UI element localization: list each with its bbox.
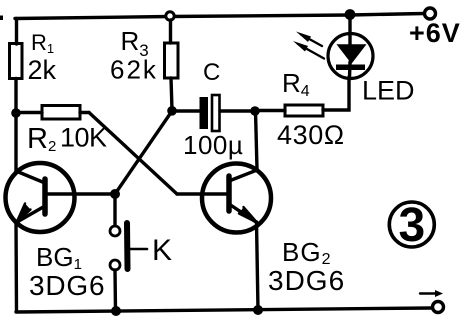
wire BG2 emitter down to rail [257,222,259,310]
switch K bottom contact [110,260,120,270]
wire BG2 collector vertical [256,111,258,169]
svg-text:100µ: 100µ [183,130,243,160]
node K bottom rail junction [111,306,121,316]
svg-text:BG1: BG1 [36,242,82,273]
switch K blade [124,223,131,269]
transistor Q2 BG2 [202,164,271,233]
resistor R4 body [285,105,323,116]
svg-text:2k: 2k [28,55,57,85]
node LED anode on rail [345,9,356,20]
node C left junction [167,106,177,116]
wire R3 top [169,20,172,43]
scan speck left edge [0,16,3,21]
wire BG1 emitter down to bottom rail [14,222,18,311]
LED triangle [338,45,365,63]
svg-text:430Ω: 430Ω [277,120,345,150]
figure number circled 3 [389,199,434,252]
wire left vertical from rail to R1 [15,19,18,45]
terminal ring R3 top on rail [166,12,174,20]
wire K bottom to rail [113,270,117,311]
svg-text:K: K [152,234,172,267]
switch K actuator tick [130,248,147,251]
terminal bottom (open circle) [433,302,444,313]
LED light arrow 2 [293,41,324,59]
switch K top contact [110,226,120,236]
svg-text:+6V: +6V [409,18,461,48]
svg-text:3DG6: 3DG6 [268,265,345,296]
wire node to capacitor [172,109,199,112]
LED circle [328,34,373,79]
svg-text:BG2: BG2 [282,237,331,268]
polarity arrow above bottom terminal [420,290,443,297]
wire capacitor to BG2 collector node [220,109,255,112]
wire R2 right stub [80,111,89,114]
svg-text:C: C [203,59,220,86]
node BG2 emitter rail junction [253,305,263,315]
capacitor C positive plate [200,97,209,129]
svg-text:R1: R1 [31,30,54,56]
svg-text:R4: R4 [282,68,310,100]
svg-text:3DG6: 3DG6 [29,270,105,301]
node BG1 base junction [110,189,120,199]
wire R3 bottom to node [171,78,172,110]
wire node down to BG1 collector [14,113,17,170]
svg-text:R2: R2 [27,123,56,155]
svg-text:62k: 62k [110,55,158,85]
wire R4 right to LED cathode drop [323,77,349,110]
resistor R2 body [42,106,80,120]
wire LED cathode inside [348,62,352,78]
capacitor C negative plate [212,95,220,131]
wire node to R4 [255,109,285,112]
transistor Q1 BG1 [6,163,116,232]
LED cathode bar [336,65,365,71]
svg-text:3: 3 [398,199,425,252]
switch K wire from base node [113,194,116,226]
node BG1 collector junction [11,108,21,118]
node BG2 collector junction [250,106,260,116]
wire diagonal BG1 base node up to C node [115,111,172,194]
resistor R3 body [165,43,179,78]
wire into BG2 base [177,192,201,195]
wire bottom rail [16,308,432,312]
wire diagonal R2 to BG2 base [89,113,177,195]
terminal +6V (open circle) [425,8,436,19]
wire node to R2 [16,111,42,114]
wire top supply rail [15,14,424,19]
wire R1 bottom to node [14,79,17,114]
wire LED anode [348,15,351,46]
resistor R1 body [10,44,23,79]
LED light arrow 1 [296,32,322,47]
svg-text:10K: 10K [60,123,107,153]
svg-text:LED: LED [362,76,415,106]
